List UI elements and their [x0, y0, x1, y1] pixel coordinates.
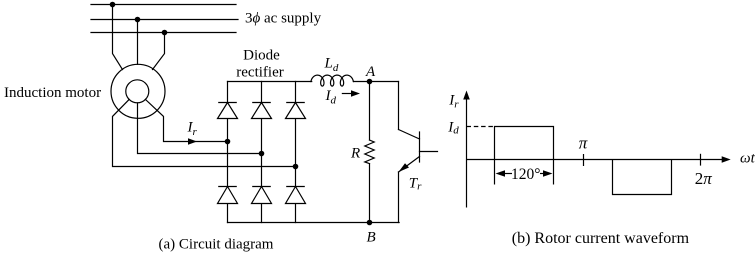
svg-text:120°: 120° — [511, 166, 540, 183]
svg-text:B: B — [367, 230, 376, 246]
svg-text:Ir: Ir — [448, 93, 459, 111]
svg-text:rectifier: rectifier — [236, 65, 283, 81]
svg-text:Ir: Ir — [187, 119, 198, 138]
svg-text:2π: 2π — [695, 169, 713, 188]
svg-text:R: R — [350, 146, 360, 162]
svg-text:A: A — [365, 64, 376, 80]
svg-text:Induction motor: Induction motor — [4, 85, 101, 101]
svg-text:(b) Rotor current waveform: (b) Rotor current waveform — [512, 230, 690, 247]
svg-text:(a) Circuit diagram: (a) Circuit diagram — [159, 237, 274, 253]
svg-text:Id: Id — [325, 88, 337, 107]
svg-text:π: π — [579, 134, 588, 153]
svg-text:Ld: Ld — [324, 55, 339, 74]
svg-text:ωt: ωt — [740, 151, 755, 167]
svg-text:Id: Id — [447, 120, 459, 137]
svg-text:3ϕ ac supply: 3ϕ ac supply — [245, 11, 322, 27]
svg-text:Diode: Diode — [243, 48, 280, 64]
svg-text:Tr: Tr — [409, 175, 422, 192]
